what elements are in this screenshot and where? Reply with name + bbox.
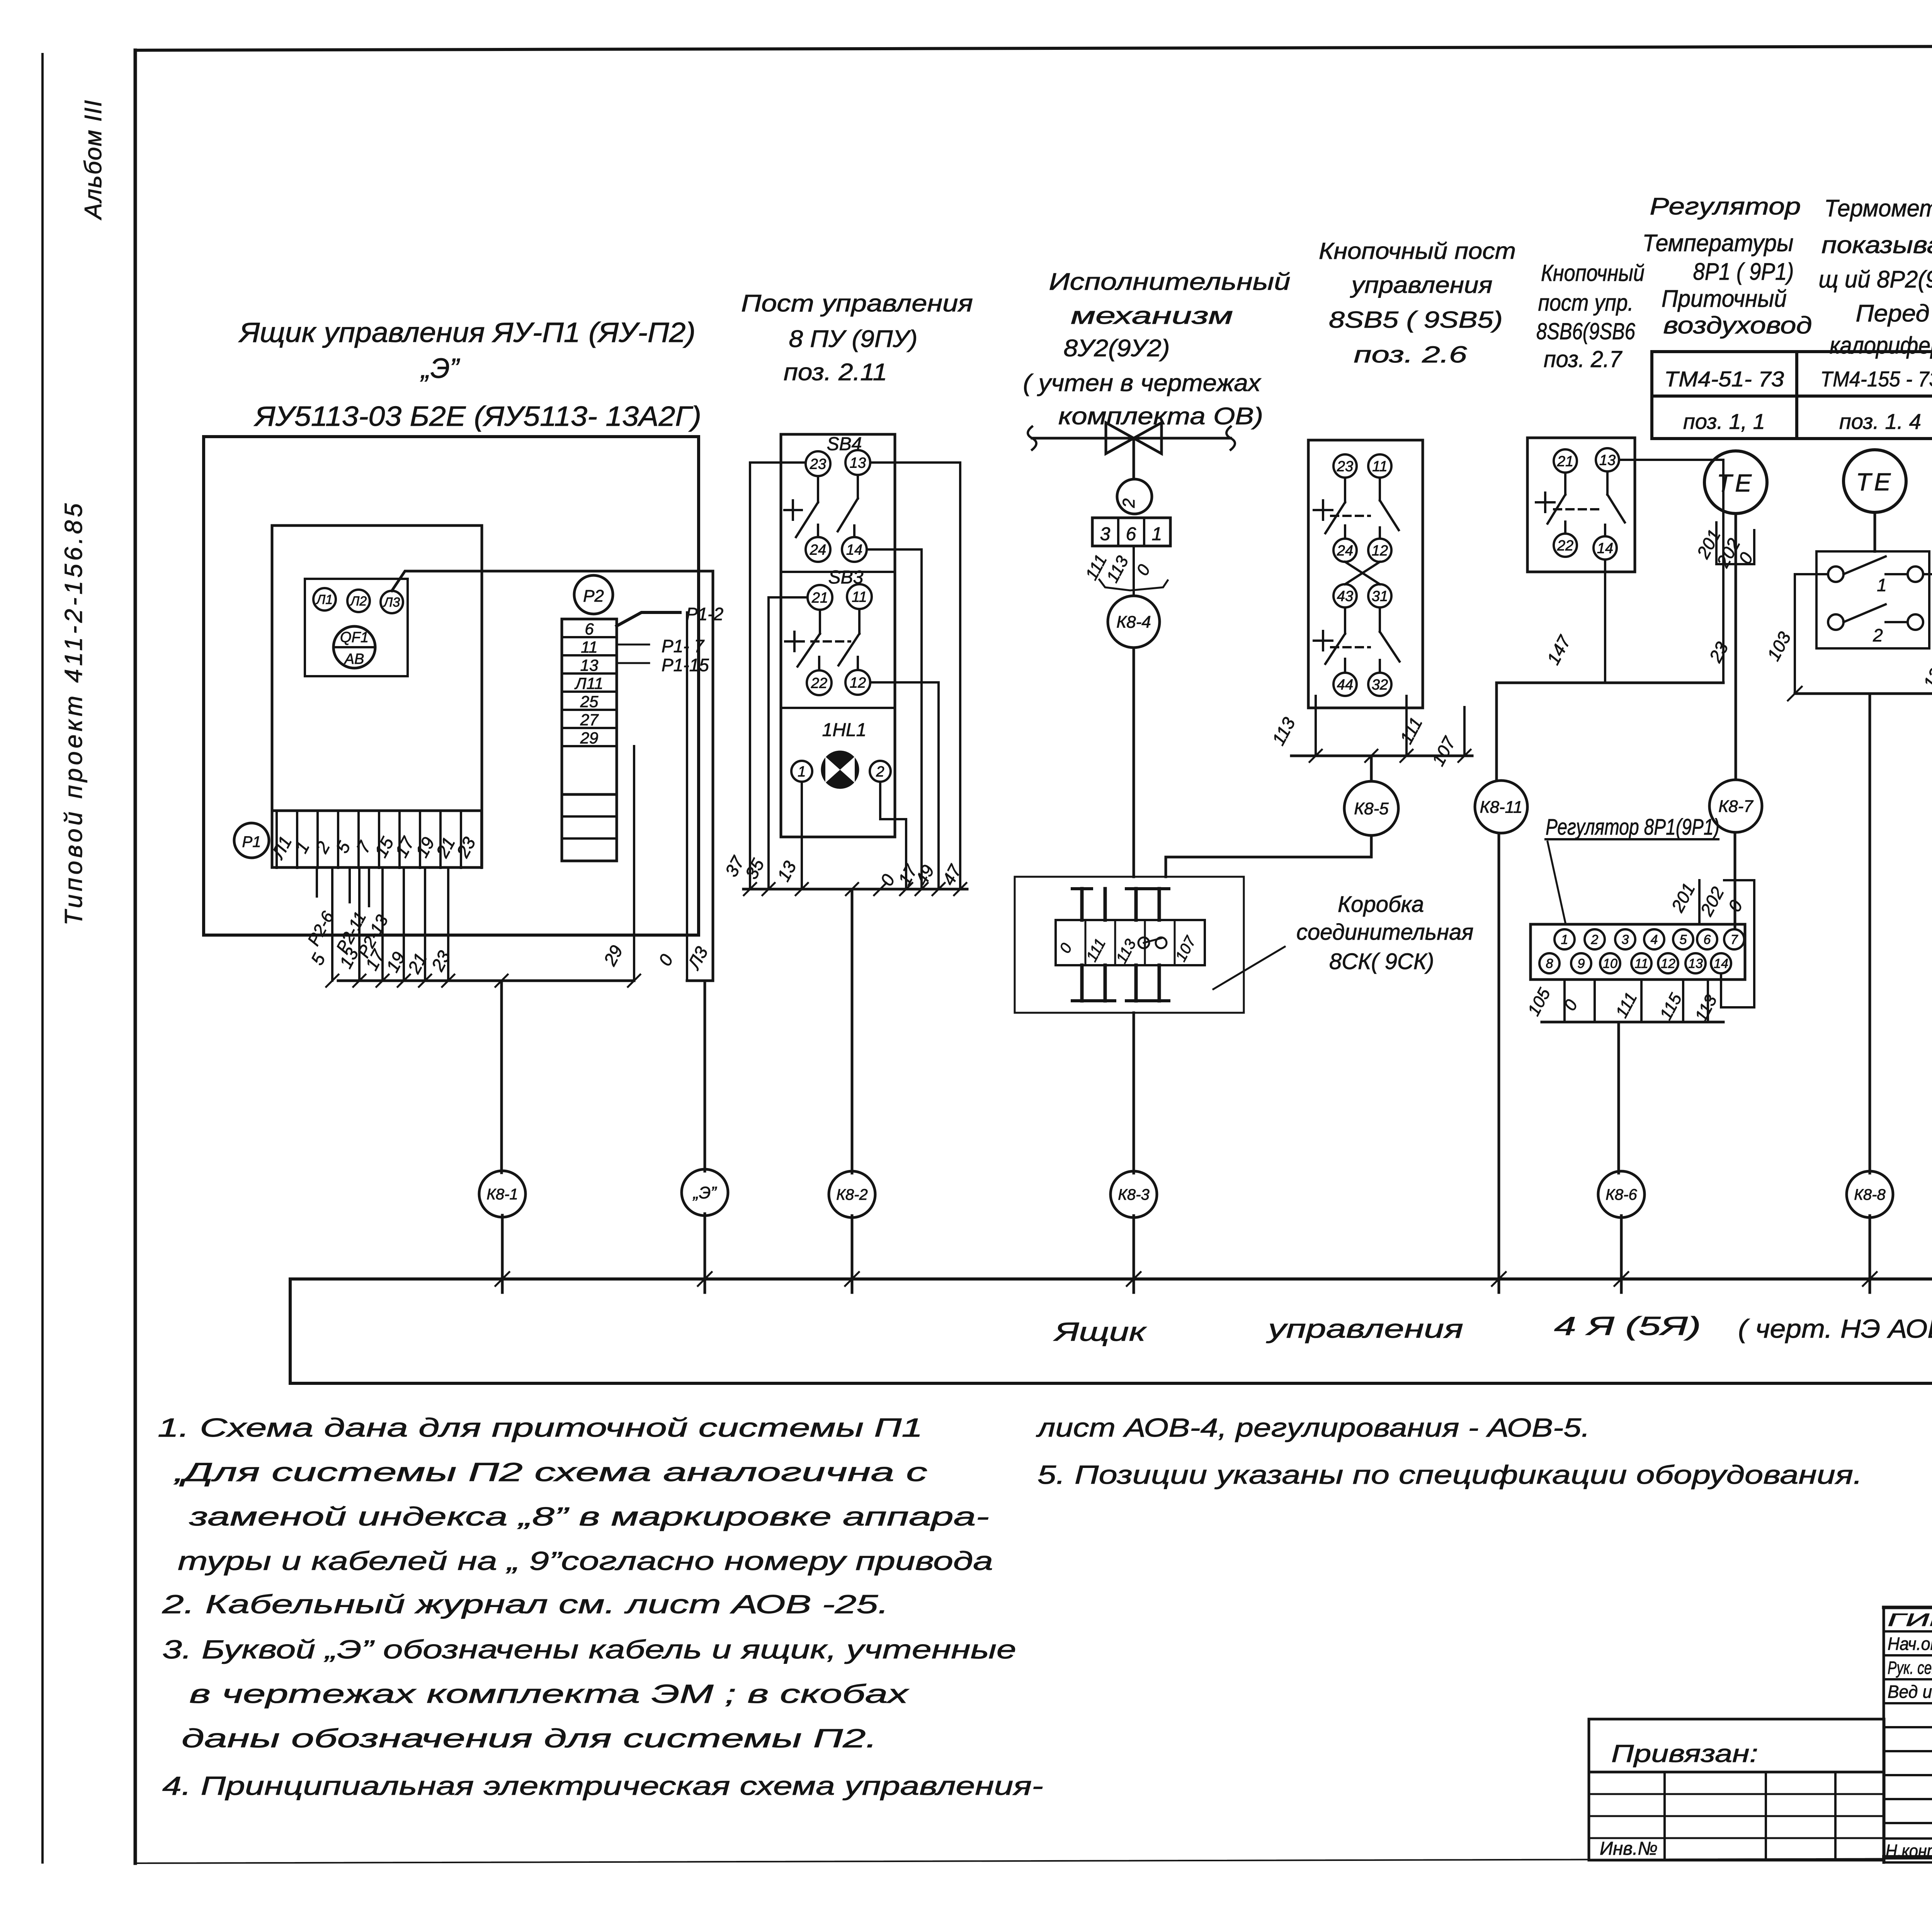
svg-text:13: 13	[1599, 452, 1616, 468]
svg-text:4 Я (5Я): 4 Я (5Я)	[1554, 1311, 1701, 1341]
svg-text:5: 5	[1680, 932, 1687, 947]
svg-text:К8-1: К8-1	[486, 1186, 518, 1203]
svg-text:2. Кабельный журнал см. лис: 2. Кабельный журнал см. лист АОВ -25.	[162, 1590, 889, 1619]
svg-text:11: 11	[1634, 956, 1648, 971]
svg-text:калорифером: калорифером	[1830, 332, 1932, 359]
svg-text:Л2: Л2	[350, 594, 367, 609]
svg-text:Приточный: Приточный	[1662, 286, 1787, 312]
svg-text:5. Позиции указаны по спец: 5. Позиции указаны по спецификации обору…	[1037, 1460, 1862, 1490]
svg-text:9: 9	[1578, 956, 1585, 971]
svg-text:11: 11	[581, 638, 598, 656]
svg-text:1: 1	[1877, 575, 1887, 595]
svg-text:Ящик управления ЯУ-П1 (ЯУ-П2): Ящик управления ЯУ-П1 (ЯУ-П2)	[238, 317, 696, 348]
svg-text:заменой индекса „8” в мар: заменой индекса „8” в маркировке аппара-	[189, 1502, 989, 1531]
svg-text:QF1: QF1	[340, 629, 369, 646]
svg-text:Л11: Л11	[574, 674, 603, 692]
svg-text:ТМ4-155 - 73: ТМ4-155 - 73	[1820, 367, 1932, 391]
svg-text:туры и кабелей на „ 9”согл: туры и кабелей на „ 9”согласно номеру пр…	[178, 1546, 993, 1576]
svg-text:ТЕ: ТЕ	[1856, 468, 1894, 496]
svg-text:К8-2: К8-2	[836, 1186, 867, 1203]
svg-text:4. Принципиальная электрическ: 4. Принципиальная электрическая схема уп…	[162, 1771, 1043, 1801]
svg-text:Л1: Л1	[316, 592, 333, 607]
svg-text:1HL1: 1HL1	[822, 720, 867, 740]
svg-text:22: 22	[811, 675, 827, 691]
svg-text:8Р1 ( 9Р1): 8Р1 ( 9Р1)	[1693, 259, 1794, 285]
svg-text:‚Для системы П2 схема: ‚Для системы П2 схема аналогична с	[173, 1458, 927, 1487]
svg-text:21: 21	[1557, 453, 1573, 469]
svg-text:поз. 1, 1: поз. 1, 1	[1683, 409, 1765, 434]
svg-text:Кнопочный: Кнопочный	[1541, 260, 1645, 286]
svg-text:К8-11: К8-11	[1480, 798, 1523, 816]
svg-text:24: 24	[810, 542, 826, 558]
svg-text:( учтен в чертежах: ( учтен в чертежах	[1023, 370, 1262, 396]
svg-text:Температуры: Температуры	[1643, 230, 1794, 257]
svg-text:Инв.№: Инв.№	[1600, 1838, 1658, 1859]
svg-text:14: 14	[1597, 540, 1613, 556]
svg-text:12: 12	[850, 675, 866, 691]
svg-text:2: 2	[1872, 625, 1883, 645]
svg-text:ЯУ5113-03 Б2Е (ЯУ5113- 13А2Г): ЯУ5113-03 Б2Е (ЯУ5113- 13А2Г)	[253, 401, 701, 432]
svg-text:Типовой проект 411-2-156.85: Типовой проект 411-2-156.85	[60, 500, 87, 925]
svg-text:Регулятор: Регулятор	[1650, 193, 1801, 220]
svg-text:25: 25	[580, 692, 599, 711]
svg-text:43: 43	[1337, 588, 1353, 604]
svg-text:Альбом III: Альбом III	[80, 99, 107, 221]
svg-text:1: 1	[798, 764, 806, 780]
svg-text:К8-7: К8-7	[1718, 797, 1753, 816]
svg-text:1: 1	[1152, 524, 1162, 544]
svg-text:Л3: Л3	[383, 595, 400, 610]
svg-text:2: 2	[1119, 498, 1138, 508]
svg-text:10: 10	[1603, 956, 1617, 971]
svg-text:12: 12	[1372, 543, 1388, 559]
svg-text:13: 13	[580, 656, 599, 674]
svg-text:Пост управления: Пост управления	[741, 290, 973, 317]
svg-text:Вед инж: Вед инж	[1888, 1682, 1932, 1702]
svg-text:23: 23	[1337, 458, 1353, 474]
svg-text:23: 23	[810, 456, 826, 472]
svg-text:8SB6(9SB6: 8SB6(9SB6	[1536, 318, 1636, 344]
svg-text:6: 6	[585, 620, 594, 638]
svg-text:1: 1	[1561, 932, 1568, 947]
svg-text:ГИП: ГИП	[1888, 1610, 1932, 1630]
svg-text:2: 2	[1591, 932, 1599, 947]
svg-text:22: 22	[1557, 537, 1573, 554]
svg-text:( черт. НЭ АОВ-33- НЭ АОВ - 36: ( черт. НЭ АОВ-33- НЭ АОВ - 36)	[1738, 1314, 1932, 1344]
svg-text:2: 2	[876, 764, 884, 780]
svg-text:даны обозначения для систем: даны обозначения для системы П2.	[182, 1724, 877, 1753]
svg-text:Перед: Перед	[1856, 300, 1930, 327]
svg-text:31: 31	[1372, 588, 1388, 604]
svg-text:Кнопочный пост: Кнопочный пост	[1319, 238, 1516, 264]
svg-text:Регулятор 8Р1(9Р1): Регулятор 8Р1(9Р1)	[1546, 815, 1719, 840]
svg-text:44: 44	[1337, 677, 1353, 693]
svg-text:ТЕ: ТЕ	[1717, 469, 1755, 497]
svg-text:21: 21	[811, 590, 828, 606]
svg-text:Исполнительный: Исполнительный	[1049, 269, 1291, 295]
svg-text:8: 8	[1546, 956, 1553, 971]
svg-text:АВ: АВ	[344, 651, 364, 667]
svg-text:Р1- 7: Р1- 7	[662, 636, 704, 656]
svg-text:29: 29	[580, 729, 599, 747]
svg-text:управления: управления	[1266, 1314, 1463, 1344]
svg-text:управления: управления	[1350, 272, 1492, 298]
svg-text:поз. 2.7: поз. 2.7	[1544, 346, 1623, 372]
svg-text:механизм: механизм	[1071, 303, 1233, 329]
svg-text:пост упр.: пост упр.	[1538, 290, 1634, 316]
svg-text:Термометр: Термометр	[1824, 195, 1932, 222]
svg-text:в чертежах комплекта ЭМ ;: в чертежах комплекта ЭМ ; в скобах	[189, 1679, 909, 1709]
svg-text:Р2: Р2	[583, 587, 604, 605]
svg-text:воздуховод: воздуховод	[1663, 312, 1812, 339]
svg-text:24: 24	[1337, 543, 1353, 559]
svg-text:7: 7	[1731, 932, 1738, 947]
svg-text:13: 13	[1688, 956, 1703, 971]
svg-text:Р1-15: Р1-15	[662, 655, 709, 675]
svg-text:Р1: Р1	[242, 833, 261, 850]
svg-text:12: 12	[1661, 956, 1675, 971]
svg-text:Рук. сект.: Рук. сект.	[1888, 1658, 1932, 1678]
svg-text:ТМ4-51- 73: ТМ4-51- 73	[1664, 367, 1784, 391]
svg-text:11: 11	[1372, 458, 1387, 474]
svg-text:13: 13	[850, 455, 866, 471]
svg-text:поз. 2.11: поз. 2.11	[784, 359, 887, 386]
svg-text:14: 14	[846, 542, 862, 558]
svg-text:3: 3	[1100, 524, 1111, 544]
svg-text:щ ий 8Р2(9Р2): щ ий 8Р2(9Р2)	[1819, 266, 1932, 293]
svg-text:32: 32	[1372, 677, 1388, 693]
svg-text:К8-8: К8-8	[1854, 1186, 1886, 1203]
svg-text:К8-5: К8-5	[1354, 799, 1389, 818]
svg-text:8СК( 9СК): 8СК( 9СК)	[1329, 949, 1434, 974]
svg-text:показываю-: показываю-	[1821, 232, 1932, 259]
svg-text:„Э”: „Э”	[420, 353, 460, 384]
svg-text:К8-4: К8-4	[1116, 612, 1151, 631]
svg-text:27: 27	[580, 711, 599, 729]
svg-text:8 ПУ (9ПУ): 8 ПУ (9ПУ)	[789, 326, 918, 352]
svg-text:14: 14	[1714, 956, 1728, 971]
svg-text:Коробка: Коробка	[1338, 892, 1424, 917]
svg-text:К8-3: К8-3	[1118, 1186, 1149, 1203]
svg-text:Нач.отд: Нач.отд	[1888, 1634, 1932, 1654]
svg-text:6: 6	[1126, 524, 1136, 544]
svg-text:8SB5 ( 9SB5): 8SB5 ( 9SB5)	[1329, 307, 1503, 333]
svg-text:поз. 2.6: поз. 2.6	[1354, 342, 1468, 367]
svg-text:3. Буквой „Э” обозначены кабе: 3. Буквой „Э” обозначены кабель и ящик, …	[162, 1635, 1016, 1664]
svg-text:поз. 1. 4: поз. 1. 4	[1839, 409, 1921, 434]
svg-text:1. Схема дана для приточной си: 1. Схема дана для приточной системы П1	[158, 1413, 923, 1442]
svg-text:К8-6: К8-6	[1605, 1186, 1637, 1203]
svg-text:Р1-2: Р1-2	[686, 604, 723, 624]
svg-text:лист АОВ-4, регулирования -: лист АОВ-4, регулирования - АОВ-5.	[1036, 1413, 1590, 1442]
svg-text:11: 11	[852, 589, 867, 605]
svg-text:Ящик: Ящик	[1053, 1317, 1147, 1347]
svg-text:8У2(9У2): 8У2(9У2)	[1064, 335, 1170, 362]
svg-text:„Э”: „Э”	[692, 1183, 717, 1202]
svg-text:3: 3	[1622, 932, 1629, 947]
svg-text:соединительная: соединительная	[1296, 920, 1473, 945]
svg-text:Привязан:: Привязан:	[1611, 1740, 1758, 1767]
svg-text:4: 4	[1651, 932, 1658, 947]
svg-text:6: 6	[1704, 932, 1711, 947]
